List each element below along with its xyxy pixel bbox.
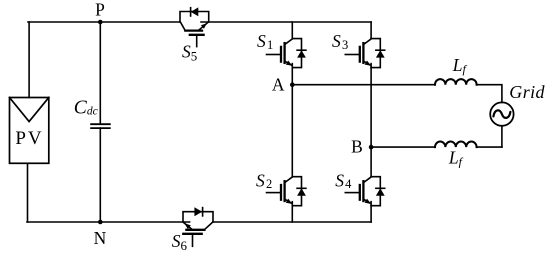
grid sine symbol bbox=[493, 110, 510, 118]
svg-text:S1: S1 bbox=[257, 31, 273, 52]
wire lower inductor to grid corner bbox=[477, 146, 502, 148]
svg-text:PV: PV bbox=[15, 128, 43, 149]
wire node A to upper inductor bbox=[292, 84, 435, 86]
wire S3 to node B (crosses A line) bbox=[370, 68, 372, 148]
wire node B to S4 bbox=[370, 147, 372, 177]
wire S1 top bbox=[291, 22, 293, 39]
wire top rail right segment bbox=[201, 21, 371, 23]
wire bottom rail left segment bbox=[27, 221, 190, 223]
wire upper inductor to grid corner bbox=[477, 85, 502, 103]
svg-text:Grid: Grid bbox=[509, 82, 545, 102]
wire capacitor branch bottom bbox=[99, 128, 101, 222]
wire bottom rail right segment bbox=[213, 221, 371, 223]
svg-text:A: A bbox=[272, 74, 285, 94]
inductor Lf upper bbox=[435, 79, 477, 85]
wire top rail left segment bbox=[28, 21, 180, 23]
svg-text:Lf: Lf bbox=[448, 148, 464, 169]
svg-text:Cdc: Cdc bbox=[74, 97, 98, 118]
svg-text:P: P bbox=[95, 0, 105, 20]
wire grid to lower corner bbox=[501, 126, 503, 147]
wire PV bottom vertical bbox=[27, 163, 29, 222]
PV panel bbox=[10, 98, 49, 164]
svg-text:Lf: Lf bbox=[452, 55, 468, 76]
wire capacitor branch top bbox=[99, 22, 101, 124]
capacitor Cdc bbox=[91, 124, 110, 128]
node N bbox=[98, 220, 103, 225]
switch S1 IGBT bbox=[267, 39, 306, 68]
switch S2 IGBT bbox=[267, 177, 306, 206]
wire node B to lower inductor bbox=[371, 146, 435, 148]
node P bbox=[98, 20, 103, 25]
grid source circle bbox=[490, 102, 513, 125]
wire S3 top bbox=[370, 22, 372, 39]
switch S3 IGBT bbox=[345, 39, 384, 68]
svg-text:N: N bbox=[94, 228, 107, 248]
switch S6 IGBT with antiparallel diode bbox=[183, 207, 213, 246]
wire S1 to node A bbox=[291, 68, 293, 85]
wire node A to S2 bbox=[291, 85, 293, 177]
switch S4 IGBT bbox=[345, 177, 384, 206]
wire PV top vertical bbox=[28, 22, 30, 98]
svg-text:S3: S3 bbox=[332, 31, 348, 52]
switch S5 IGBT with antiparallel diode bbox=[180, 7, 209, 46]
inductor Lf lower bbox=[435, 142, 477, 148]
svg-text:S2: S2 bbox=[256, 170, 272, 191]
wire S2 bottom bbox=[291, 206, 293, 222]
svg-text:S4: S4 bbox=[335, 170, 352, 191]
node B bbox=[369, 145, 374, 150]
svg-text:B: B bbox=[351, 137, 363, 157]
node A bbox=[290, 82, 295, 87]
wire S4 bottom bbox=[370, 206, 372, 222]
svg-text:S5: S5 bbox=[182, 42, 197, 64]
